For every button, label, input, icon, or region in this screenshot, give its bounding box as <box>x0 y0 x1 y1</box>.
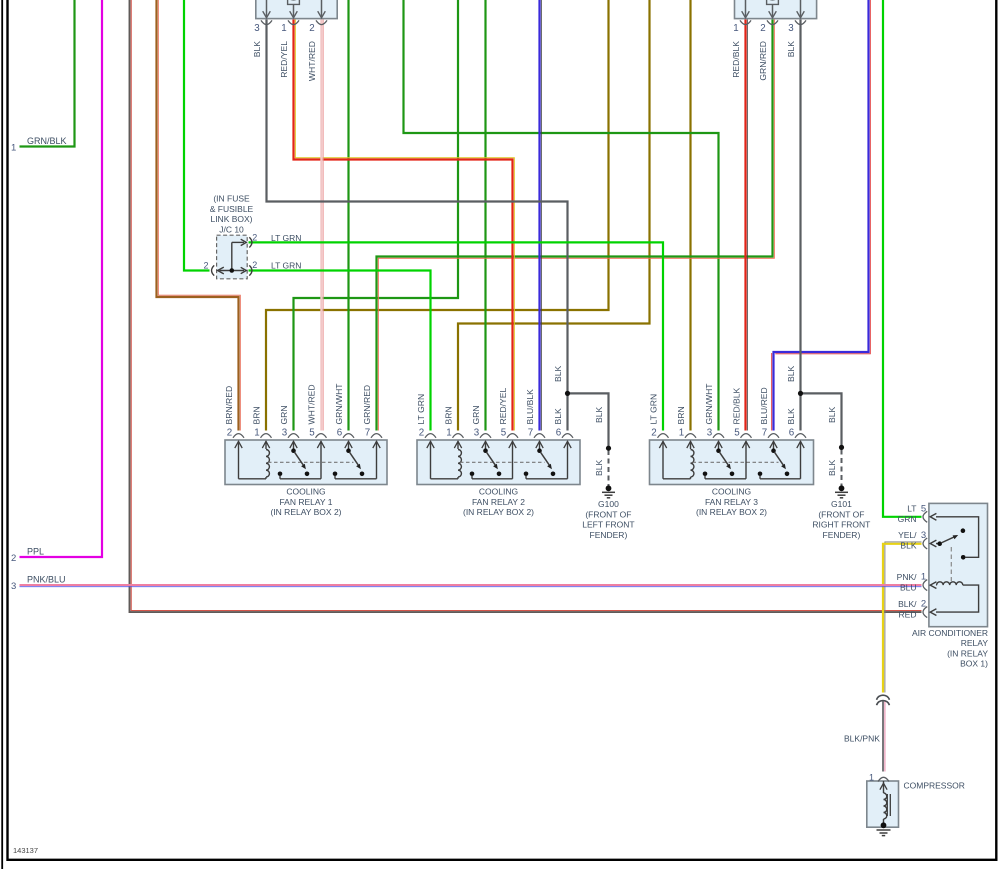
svg-text:FAN RELAY 3: FAN RELAY 3 <box>705 497 758 507</box>
svg-text:2: 2 <box>227 428 232 439</box>
svg-text:BLK: BLK <box>594 459 604 476</box>
svg-text:PPL: PPL <box>27 547 44 557</box>
svg-text:(IN RELAY BOX 2): (IN RELAY BOX 2) <box>463 507 534 517</box>
svg-text:3: 3 <box>11 581 16 592</box>
svg-text:5: 5 <box>921 503 926 514</box>
svg-text:BLK: BLK <box>827 406 837 423</box>
svg-text:COMPRESSOR: COMPRESSOR <box>904 781 965 791</box>
svg-text:(IN RELAY BOX 2): (IN RELAY BOX 2) <box>270 507 341 517</box>
svg-text:6: 6 <box>556 428 562 439</box>
svg-text:LEFT FRONT: LEFT FRONT <box>582 520 634 530</box>
svg-text:COOLING: COOLING <box>479 487 518 497</box>
svg-text:FAN RELAY 2: FAN RELAY 2 <box>472 497 525 507</box>
svg-text:FAN RELAY 1: FAN RELAY 1 <box>279 497 332 507</box>
svg-text:PNK/: PNK/ <box>897 572 917 582</box>
svg-text:RIGHT FRONT: RIGHT FRONT <box>812 520 870 530</box>
svg-text:GRN: GRN <box>279 405 289 424</box>
svg-text:2: 2 <box>252 233 257 243</box>
svg-text:1: 1 <box>869 773 874 783</box>
svg-text:BLK: BLK <box>594 406 604 423</box>
svg-text:RED/BLK: RED/BLK <box>732 387 742 424</box>
svg-text:2: 2 <box>651 428 656 439</box>
svg-text:LINK BOX): LINK BOX) <box>210 214 252 224</box>
svg-text:GRN/RED: GRN/RED <box>758 41 768 81</box>
svg-text:BLK: BLK <box>553 365 563 382</box>
svg-text:BRN: BRN <box>676 406 686 424</box>
svg-text:BLK: BLK <box>786 408 796 425</box>
svg-text:GRN/WHT: GRN/WHT <box>704 383 714 425</box>
svg-text:PNK/BLU: PNK/BLU <box>27 575 66 585</box>
svg-text:G100: G100 <box>598 499 619 509</box>
svg-text:3: 3 <box>282 428 288 439</box>
svg-text:7: 7 <box>762 428 767 439</box>
svg-text:3: 3 <box>788 23 794 34</box>
svg-text:BLU/RED: BLU/RED <box>759 387 769 424</box>
svg-text:BLK/PNK: BLK/PNK <box>844 734 880 744</box>
svg-text:(FRONT OF: (FRONT OF <box>818 509 864 519</box>
svg-text:1: 1 <box>254 428 259 439</box>
svg-text:2: 2 <box>252 260 257 270</box>
svg-text:GRN/WHT: GRN/WHT <box>334 383 344 425</box>
svg-text:COOLING: COOLING <box>712 487 751 497</box>
svg-text:RED: RED <box>899 609 917 619</box>
svg-text:BLU/BLK: BLU/BLK <box>525 389 535 425</box>
svg-text:RED/BLK: RED/BLK <box>731 41 741 78</box>
svg-text:BLK: BLK <box>553 408 563 425</box>
svg-text:RED/YEL: RED/YEL <box>279 41 289 78</box>
svg-text:(IN RELAY: (IN RELAY <box>947 648 988 658</box>
svg-text:5: 5 <box>734 428 740 439</box>
svg-text:BRN: BRN <box>252 406 262 424</box>
svg-text:BLK: BLK <box>786 41 796 58</box>
svg-text:5: 5 <box>309 428 315 439</box>
svg-text:3: 3 <box>921 530 926 541</box>
svg-text:7: 7 <box>528 428 533 439</box>
svg-text:FENDER): FENDER) <box>823 530 861 540</box>
svg-text:BLU: BLU <box>900 582 917 592</box>
svg-text:(IN RELAY BOX 2): (IN RELAY BOX 2) <box>696 507 767 517</box>
svg-text:AIR CONDITIONER: AIR CONDITIONER <box>912 628 988 638</box>
svg-text:COOLING: COOLING <box>286 487 325 497</box>
svg-text:3: 3 <box>707 428 713 439</box>
svg-text:LT GRN: LT GRN <box>416 394 426 425</box>
svg-text:1: 1 <box>921 572 926 583</box>
svg-text:BRN: BRN <box>444 406 454 424</box>
svg-text:BLK: BLK <box>252 41 262 58</box>
svg-text:143137: 143137 <box>13 846 38 855</box>
svg-text:2: 2 <box>921 599 926 610</box>
svg-text:LT: LT <box>907 504 916 514</box>
svg-text:LT GRN: LT GRN <box>271 260 301 270</box>
svg-text:2: 2 <box>11 553 16 564</box>
svg-text:WHT/RED: WHT/RED <box>307 384 317 424</box>
svg-text:3: 3 <box>254 23 260 34</box>
svg-text:WHT/RED: WHT/RED <box>307 41 317 81</box>
svg-text:2: 2 <box>309 23 314 34</box>
svg-text:J/C 10: J/C 10 <box>219 224 244 234</box>
svg-text:RED/YEL: RED/YEL <box>498 388 508 425</box>
svg-text:2: 2 <box>203 261 208 271</box>
svg-text:GRN/BLK: GRN/BLK <box>27 136 67 146</box>
svg-text:6: 6 <box>789 428 795 439</box>
svg-text:3: 3 <box>474 428 480 439</box>
svg-text:2: 2 <box>760 23 765 34</box>
svg-text:BLK/: BLK/ <box>898 599 917 609</box>
svg-text:LT GRN: LT GRN <box>649 394 659 425</box>
svg-text:7: 7 <box>365 428 370 439</box>
svg-text:2: 2 <box>419 428 424 439</box>
svg-text:(FRONT OF: (FRONT OF <box>585 509 631 519</box>
svg-text:GRN: GRN <box>471 405 481 424</box>
svg-text:YEL/: YEL/ <box>898 530 917 540</box>
svg-text:BOX 1): BOX 1) <box>960 659 988 669</box>
svg-text:BLK: BLK <box>827 459 837 476</box>
svg-text:GRN/RED: GRN/RED <box>362 385 372 425</box>
svg-text:BLK: BLK <box>786 365 796 382</box>
svg-text:G101: G101 <box>831 499 852 509</box>
svg-text:GRN: GRN <box>898 514 917 524</box>
svg-text:1: 1 <box>281 23 286 34</box>
svg-text:1: 1 <box>446 428 451 439</box>
svg-text:(IN FUSE: (IN FUSE <box>213 194 250 204</box>
svg-text:FENDER): FENDER) <box>590 530 628 540</box>
svg-text:LT GRN: LT GRN <box>271 233 301 243</box>
svg-text:BLK: BLK <box>900 541 916 551</box>
svg-text:RELAY: RELAY <box>961 638 989 648</box>
svg-text:1: 1 <box>11 143 16 154</box>
svg-text:& FUSIBLE: & FUSIBLE <box>210 204 254 214</box>
svg-text:BRN/RED: BRN/RED <box>224 386 234 425</box>
svg-text:5: 5 <box>501 428 507 439</box>
svg-text:1: 1 <box>679 428 684 439</box>
svg-text:1: 1 <box>733 23 738 34</box>
svg-text:6: 6 <box>337 428 343 439</box>
